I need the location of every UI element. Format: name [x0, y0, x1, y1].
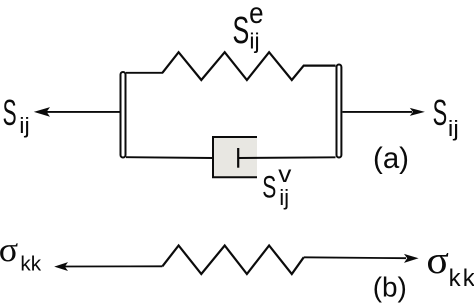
svg-text:ij: ij — [279, 185, 289, 210]
dashpot cylinder fill — [213, 137, 257, 177]
arrow shaft right sigma_kk — [304, 256, 406, 259]
spring S_ij^e — [162, 52, 335, 80]
svg-text:ij: ij — [249, 28, 259, 54]
right end plate (capsule) — [337, 65, 342, 158]
arrowhead left S_ij — [34, 107, 50, 117]
wire: left plate to spring — [126, 72, 163, 74]
dashpot cylinder outline — [213, 137, 257, 177]
svg-text:e: e — [249, 0, 263, 29]
left end plate (capsule) — [121, 72, 126, 158]
svg-text:(a): (a) — [373, 142, 409, 175]
arrow shaft left S_ij — [45, 111, 120, 113]
svg-text:S: S — [233, 9, 250, 51]
svg-text:S: S — [262, 169, 276, 204]
svg-text:v: v — [278, 162, 292, 187]
dashpot piston rod to right plate — [238, 156, 335, 159]
spring sigma_kk — [162, 246, 303, 275]
svg-text:kk: kk — [20, 253, 41, 276]
arrow shaft left sigma_kk — [63, 265, 162, 267]
arrowhead right sigma_kk — [404, 254, 419, 263]
arrowhead right S_ij — [410, 108, 425, 116]
svg-text:kk: kk — [449, 265, 474, 292]
svg-text:σ: σ — [426, 238, 449, 281]
svg-text:S: S — [3, 93, 17, 133]
wire: left plate to dashpot — [126, 156, 213, 159]
svg-text:ij: ij — [448, 116, 459, 141]
svg-text:ij: ij — [19, 113, 29, 138]
dashpot piston plate — [237, 148, 239, 168]
arrowhead left sigma_kk — [54, 262, 68, 271]
arrow shaft right S_ij — [343, 111, 413, 113]
svg-text:σ: σ — [0, 230, 18, 269]
svg-text:(b): (b) — [373, 272, 407, 303]
svg-text:S: S — [433, 94, 448, 134]
